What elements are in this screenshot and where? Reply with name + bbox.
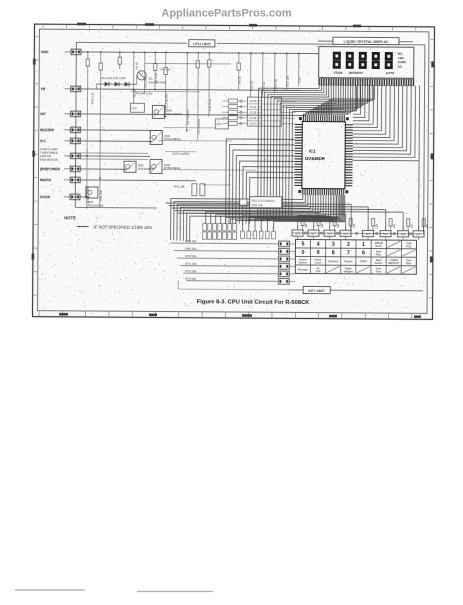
svg-text:FAN MOTOR: FAN MOTOR — [40, 158, 59, 162]
svg-text:R73 15k: R73 15k — [185, 276, 196, 280]
svg-text:0: 0 — [302, 250, 305, 256]
svg-text:R3 1k: R3 1k — [135, 61, 139, 69]
svg-text:R12 10k: R12 10k — [274, 78, 278, 89]
svg-text:Popcorn: Popcorn — [344, 260, 353, 263]
svg-text:C20 0.1µ/50v: C20 0.1µ/50v — [172, 152, 190, 156]
svg-text:D-3: D-3 — [383, 232, 388, 236]
svg-text:G715 4.7k: G715 4.7k — [249, 111, 263, 115]
svg-text:NOTE: NOTE — [64, 215, 76, 220]
svg-text:Prog.: Prog. — [406, 245, 412, 248]
svg-text:G714 4.7k: G714 4.7k — [249, 105, 263, 109]
svg-text:LD1,LD2,LD3 1/2W: LD1,LD2,LD3 1/2W — [101, 76, 126, 80]
svg-text:MICRO: MICRO — [40, 178, 52, 182]
svg-text:DEFROST: DEFROST — [349, 71, 364, 75]
svg-text:G716 4.7k: G716 4.7k — [249, 116, 263, 120]
svg-text:LIQUID CRYSTAL DISPLAY: LIQUID CRYSTAL DISPLAY — [344, 40, 389, 44]
svg-text:5: 5 — [302, 242, 305, 248]
svg-text:COMPU: COMPU — [389, 260, 398, 262]
svg-text:Chill: Chill — [316, 271, 321, 273]
svg-text:C31: C31 — [298, 77, 302, 83]
svg-text:G717 4.7k: G717 4.7k — [249, 122, 263, 126]
svg-text:AppliancePartsPros.com: AppliancePartsPros.com — [161, 8, 291, 20]
svg-text:Beverage: Beverage — [298, 268, 309, 271]
svg-text:R70 15k: R70 15k — [185, 254, 196, 258]
svg-text:INT: INT — [40, 112, 46, 116]
svg-text:C8 47µ/16v: C8 47µ/16v — [186, 109, 190, 124]
svg-text:KEY UNIT: KEY UNIT — [308, 289, 326, 293]
svg-text:C9 47µ/16v: C9 47µ/16v — [197, 118, 201, 133]
svg-text:Defrost: Defrost — [375, 262, 383, 265]
svg-text:R69 15k: R69 15k — [185, 246, 196, 250]
svg-text:IZA646DR: IZA646DR — [305, 156, 325, 161]
svg-text:C13: C13 — [131, 106, 137, 110]
svg-text:7: 7 — [347, 250, 350, 256]
svg-text:N.C: N.C — [40, 139, 46, 143]
svg-text:COOK: COOK — [334, 71, 344, 75]
svg-text:R49 10k: R49 10k — [99, 190, 103, 201]
svg-text:3: 3 — [332, 242, 335, 248]
svg-text:PLUS: PLUS — [376, 246, 382, 248]
svg-text:CPU UNIT: CPU UNIT — [193, 41, 212, 46]
svg-text:D-5: D-5 — [343, 232, 348, 236]
svg-text:2: 2 — [347, 242, 350, 248]
svg-text:R4 560 1/2w: R4 560 1/2w — [136, 91, 154, 95]
svg-text:R6 1k: R6 1k — [238, 76, 242, 84]
svg-text:DEFROST: DEFROST — [388, 263, 400, 265]
svg-text:C21: C21 — [216, 122, 222, 126]
svg-text:9: 9 — [317, 250, 320, 256]
svg-text:Jet: Jet — [316, 267, 319, 270]
svg-text:DSA143TWA: DSA143TWA — [149, 80, 166, 84]
svg-text:C12 0.1µ: C12 0.1µ — [208, 99, 212, 111]
svg-text:VR: VR — [41, 87, 46, 91]
svg-text:Clock: Clock — [406, 243, 413, 245]
svg-text:R68 15k: R68 15k — [185, 239, 196, 243]
svg-text:R50 3.3k: R50 3.3k — [90, 92, 94, 104]
svg-text:D-7: D-7 — [311, 232, 316, 236]
svg-text:Potato: Potato — [345, 267, 352, 270]
svg-text:D-1: D-1 — [416, 232, 421, 236]
svg-text:Prep.: Prep. — [376, 253, 382, 256]
svg-text:C30 0.1µ: C30 0.1µ — [262, 81, 266, 93]
svg-text:4: 4 — [317, 242, 320, 248]
svg-text:G713 4.7k: G713 4.7k — [249, 99, 263, 103]
svg-text:D-4: D-4 — [366, 232, 371, 236]
svg-text:DTA143EKA: DTA143EKA — [138, 167, 154, 171]
svg-text:GND: GND — [41, 50, 49, 54]
svg-text:Easy: Easy — [376, 260, 382, 262]
svg-text:1: 1 — [362, 242, 365, 248]
svg-text:R56 10k: R56 10k — [252, 203, 263, 207]
svg-text:Frozen: Frozen — [299, 258, 307, 261]
svg-text:D-6: D-6 — [327, 232, 332, 236]
svg-text:Lunch: Lunch — [315, 262, 322, 264]
svg-text:Meal: Meal — [376, 251, 381, 253]
svg-text:Entrees: Entrees — [299, 261, 308, 264]
svg-text:Figure 8-3. CPU Unit Circuit: Figure 8-3. CPU Unit Circuit For R-508CK — [197, 299, 311, 306]
svg-text:OZ.: OZ. — [398, 65, 403, 69]
svg-text:DTA143EKA: DTA143EKA — [166, 112, 182, 116]
svg-text:MIN/LB: MIN/LB — [375, 243, 383, 245]
svg-text:DOOR: DOOR — [40, 195, 51, 199]
svg-text:Frozen: Frozen — [314, 258, 322, 261]
svg-text:BUZZER: BUZZER — [40, 128, 54, 132]
svg-text:D-8: D-8 — [295, 232, 300, 236]
svg-text:standard: standard — [344, 270, 354, 273]
svg-text:START: START — [360, 260, 368, 263]
svg-text:Rate: Rate — [406, 262, 412, 265]
svg-text:IC1: IC1 — [309, 149, 316, 154]
svg-text:R72 15k: R72 15k — [185, 269, 196, 273]
svg-text:Oven: Oven — [376, 268, 382, 270]
svg-text:R41 15k: R41 15k — [174, 185, 185, 189]
svg-text:C24 LD: C24 LD — [250, 81, 254, 91]
svg-text:Timer: Timer — [406, 259, 412, 262]
svg-text:D50-55 330µ/16v: D50-55 330µ/16v — [248, 218, 271, 222]
svg-text:R2 4.7k: R2 4.7k — [161, 67, 172, 71]
svg-text:6: 6 — [362, 251, 365, 257]
svg-text:(BH)POWER: (BH)POWER — [40, 167, 61, 171]
svg-text:D-2: D-2 — [401, 232, 406, 236]
svg-text:Timer: Timer — [376, 270, 382, 273]
svg-text:8: 8 — [332, 250, 335, 256]
svg-text:: IF NOT SPECIFIED 1/10W ±5%: : IF NOT SPECIFIED 1/10W ±5% — [92, 224, 153, 229]
svg-text:Casserole: Casserole — [328, 260, 339, 263]
svg-text:R13 10k: R13 10k — [286, 75, 290, 86]
svg-text:R71 15k: R71 15k — [185, 261, 196, 265]
svg-text:AUTO: AUTO — [386, 71, 395, 75]
svg-text:RN1402WA: RN1402WA — [88, 203, 104, 207]
